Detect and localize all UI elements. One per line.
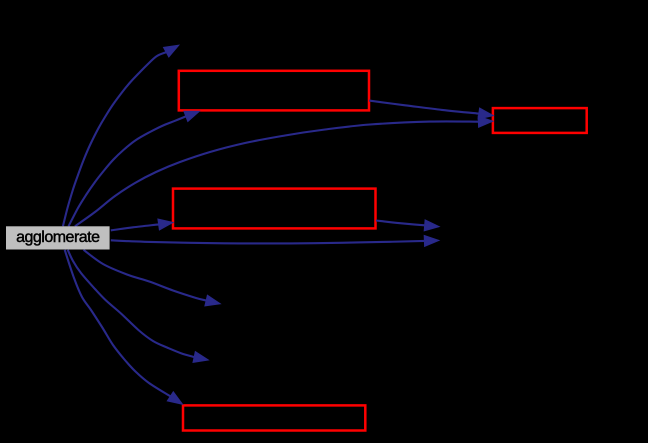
svg-text:agglomerate: agglomerate [16,229,100,246]
